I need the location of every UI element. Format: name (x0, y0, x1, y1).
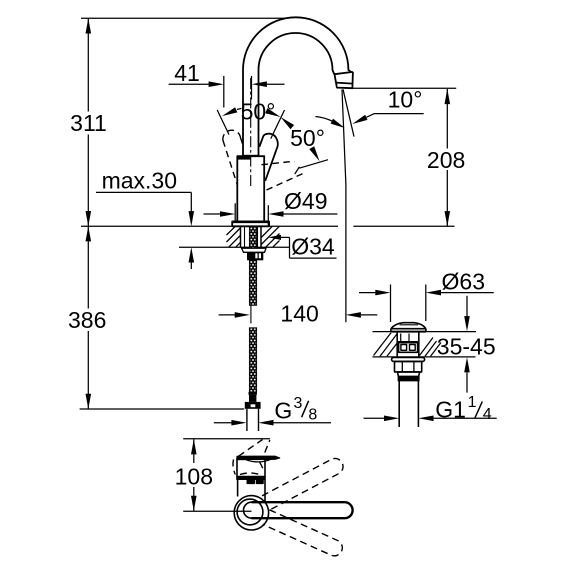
front view dashed lever up (262, 458, 343, 510)
drain deck bottom line (373, 356, 476, 358)
svg-text:max.30: max.30 (102, 168, 177, 194)
washer under deck (242, 248, 267, 252)
svg-text:50°: 50° (241, 98, 276, 124)
50 deg arc 1 left arrowhead (222, 107, 237, 116)
svg-text:311: 311 (70, 110, 107, 136)
mounting shank outer tube (240, 226, 242, 247)
dashed lowered lever lower edge (267, 174, 304, 191)
dimension 140 arrows (219, 314, 236, 316)
axis line of solid lever extended (271, 110, 285, 139)
front view dashed lever down (263, 510, 342, 556)
svg-text:35-45: 35-45 (437, 334, 496, 360)
hose nut (245, 402, 261, 409)
svg-text:G1: G1 (435, 397, 466, 423)
drain nut (395, 361, 422, 372)
dashed lowered lever upper edge (262, 161, 295, 165)
hose collar (249, 392, 257, 395)
drain taper (397, 372, 419, 377)
front view escutcheon inner circle (237, 499, 263, 525)
front view marking dashes (247, 480, 254, 483)
front view spout bar (237, 456, 280, 460)
mounting nut (247, 252, 263, 260)
dimension line 311 (87, 18, 89, 111)
body base flange (232, 222, 269, 227)
front view head box (236, 458, 238, 477)
front view escutcheon outer circle (234, 496, 268, 530)
svg-text:G: G (274, 398, 292, 424)
svg-text:10°: 10° (388, 87, 423, 113)
spout outer arc (243, 17, 351, 156)
dashed raised-left lever cap (223, 130, 241, 140)
tick on lowered lever axis (295, 167, 300, 174)
max.30 arrow top (189, 211, 195, 226)
faucet body (237, 156, 264, 221)
dimension 35-45 top arrow (466, 296, 468, 317)
dimension 49 arrows (204, 213, 221, 215)
drain thread band (398, 377, 418, 381)
deck hatch right (261, 226, 272, 237)
arrow 311 bottom (86, 211, 92, 226)
front view seam band (237, 477, 265, 480)
drain body window (399, 343, 418, 353)
extension line 41 right (251, 76, 253, 100)
dimension 35-45 bottom arrow (464, 357, 470, 372)
threaded rod upper segment (249, 227, 256, 306)
svg-text:Ø63: Ø63 (442, 269, 485, 295)
arrow 311 top (86, 18, 92, 33)
spout inner arc (259, 33, 335, 156)
extension line drain right (425, 285, 427, 322)
dashed raised-left lever left edge (223, 141, 238, 186)
50 deg arc 2 left arrowhead (281, 117, 295, 129)
dimension line 208 (446, 89, 448, 149)
svg-text:3: 3 (294, 395, 303, 412)
svg-text:4: 4 (483, 406, 492, 423)
drain deck hatch right (420, 338, 434, 356)
supply hose lower segment (249, 328, 256, 392)
drain body in deck (396, 332, 398, 357)
centerline of faucet body (250, 78, 252, 188)
front view dashed ghost head (238, 440, 262, 457)
svg-text:386: 386 (68, 307, 106, 333)
mounting shank inner lines (244, 226, 246, 247)
max.30 leader (96, 191, 191, 193)
hose end taper (249, 395, 256, 402)
dimension 41 line (169, 83, 209, 85)
extension line 386 bottom (80, 408, 245, 410)
drain deck hatch left (374, 333, 392, 356)
drain deck top line (373, 331, 477, 333)
svg-text:Ø34: Ø34 (291, 233, 335, 259)
front view lever capsule (252, 502, 353, 518)
top extension line (spout height reference) (81, 17, 287, 19)
solid lever (259, 134, 277, 181)
extension line 49 left (234, 203, 236, 222)
svg-text:108: 108 (175, 464, 213, 490)
pop-up cap dome (391, 323, 426, 329)
front view aerator ellipse (245, 459, 271, 462)
riser bottom dark band (244, 155, 259, 157)
deck top line (81, 225, 338, 227)
axis line of lowered lever (299, 160, 328, 169)
deck hatch left (227, 226, 236, 235)
arrow 386 top (86, 226, 92, 241)
50 deg arc 1 right arrowhead (265, 108, 280, 117)
dimension line 108 (193, 439, 195, 463)
arrow 386 bottom (86, 394, 92, 409)
extension line drain left (390, 285, 392, 323)
extension line 41 left (223, 76, 225, 108)
rod break line (250, 305, 252, 323)
extension line 108 top (183, 438, 270, 440)
svg-text:1: 1 (468, 394, 477, 411)
axis line of raised-left lever (217, 110, 229, 135)
max.30 arrow bottom (189, 247, 195, 262)
dimension 63 arrows (359, 292, 376, 294)
svg-text:50°: 50° (290, 125, 325, 151)
leader 34 (269, 235, 282, 240)
aerator seam (335, 72, 353, 74)
dimension G3/8 arrows (214, 422, 232, 424)
front view body sides (237, 479, 239, 496)
svg-text:208: 208 (427, 147, 465, 173)
10 deg arrow right and leader (352, 115, 367, 124)
dimension G1 1/4 arrows (364, 417, 385, 419)
aerator body (335, 72, 353, 88)
extension line 49 right (267, 205, 269, 225)
50 deg arc 2 right arrowhead (309, 146, 319, 161)
svg-text:41: 41 (174, 60, 200, 86)
stream tilted line (10 deg) (343, 89, 354, 136)
drain tail pipe (398, 381, 400, 427)
aerator middle line (336, 83, 353, 84)
extension line 108 bottom (183, 510, 251, 512)
extension line 208 top (352, 87, 457, 89)
svg-text:140: 140 (280, 300, 318, 326)
body top dark band (238, 156, 251, 159)
svg-text:8: 8 (308, 407, 317, 424)
dimension line 386 (87, 226, 89, 308)
10 deg arc and arrow left (316, 117, 333, 122)
svg-text:Ø49: Ø49 (284, 188, 327, 214)
hose connector tube (246, 409, 248, 431)
dashed raised-left lever right edge (241, 138, 244, 148)
drain flange under deck (392, 358, 425, 362)
deck bottom line (179, 246, 290, 248)
stream vertical line (342, 90, 346, 323)
